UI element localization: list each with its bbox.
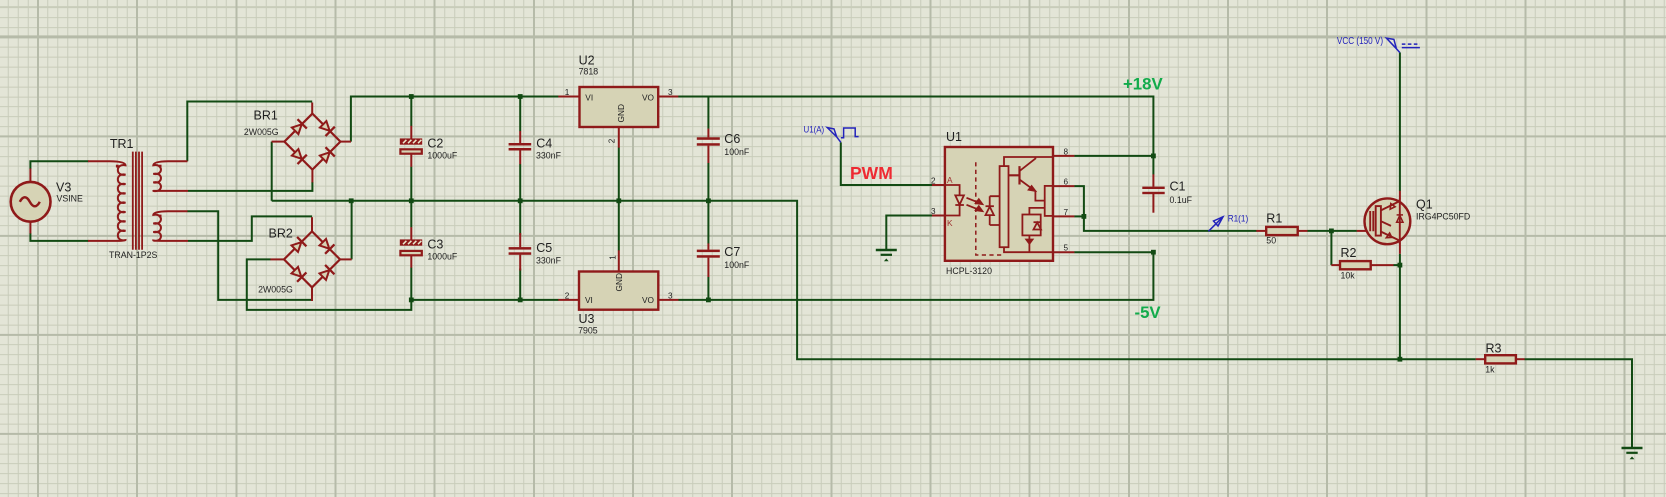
wire U1 pin5 east xyxy=(1074,251,1153,253)
U1 internal bottom supply trace xyxy=(1004,247,1053,252)
pin BR1 bottom xyxy=(311,169,313,182)
pin BR2 left xyxy=(270,258,284,260)
wire TR1 sec1 bottom to BR1 bottom vertex xyxy=(188,182,312,191)
pin C3 bottom xyxy=(410,256,412,268)
svg-text:100nF: 100nF xyxy=(724,260,750,270)
transistor Q1 collector-emitter line and internal diode xyxy=(1399,199,1401,244)
pin C3 top xyxy=(410,227,412,240)
wire VCC down to Q1 collector xyxy=(1399,53,1401,192)
wire C2 top xyxy=(410,97,412,127)
svg-text:C5: C5 xyxy=(536,241,552,255)
svg-text:7905: 7905 xyxy=(578,326,598,336)
U1 internal right load block xyxy=(1045,186,1053,216)
svg-text:1000uF: 1000uF xyxy=(427,252,457,262)
pin C5 top xyxy=(519,233,521,247)
resistor R1 body xyxy=(1266,227,1298,235)
wire +18V top rail from BR1 right to U2 VI xyxy=(351,97,559,142)
pin C7 bottom xyxy=(707,258,709,277)
svg-text:50: 50 xyxy=(1266,236,1276,246)
wire C2 bottom xyxy=(410,167,412,201)
transistor Q1 collector branch xyxy=(1381,199,1400,211)
svg-text:C1: C1 xyxy=(1170,180,1186,194)
svg-text:K: K xyxy=(947,218,953,228)
bridge BR1 diode top-left xyxy=(290,119,306,135)
wire U1 pin3 to ground xyxy=(886,216,932,250)
svg-text:330nF: 330nF xyxy=(536,150,562,160)
wire TR1 sec1 top to BR1 top vertex xyxy=(187,102,312,162)
transistor Q1 gate bar xyxy=(1370,211,1373,231)
pin U1.6 xyxy=(1053,185,1075,187)
svg-text:2: 2 xyxy=(931,176,936,185)
regulator U2 body xyxy=(580,87,659,127)
pin U3.3 VO xyxy=(658,299,678,301)
svg-text:330nF: 330nF xyxy=(536,255,562,265)
wire TR1 sec2 bottom lead to BR2 top vertex xyxy=(188,216,312,241)
svg-text:R1: R1 xyxy=(1266,212,1282,226)
pin C1 top xyxy=(1152,174,1154,186)
wire C3 bottom xyxy=(410,268,412,300)
bridge BR2 diode top-right xyxy=(318,237,334,253)
pin BR2 bottom xyxy=(311,287,313,301)
svg-text:3: 3 xyxy=(931,207,936,216)
svg-text:BR2: BR2 xyxy=(269,227,293,241)
svg-text:HCPL-3120: HCPL-3120 xyxy=(946,266,992,276)
pin U2.3 VO xyxy=(658,96,678,98)
pin C5 bottom xyxy=(519,255,521,271)
capacitor C2 positive hatched plate xyxy=(400,138,422,144)
resistor R2 body xyxy=(1340,261,1371,269)
wire R3 right to ground xyxy=(1525,359,1633,448)
bridge BR2 diode bottom-left xyxy=(290,265,306,281)
wire U1 pin8 to +18 vertical xyxy=(1074,155,1153,157)
U1 internal output transistor xyxy=(1009,157,1045,201)
pin C6 top xyxy=(707,129,709,138)
svg-text:U3: U3 xyxy=(579,312,595,326)
source V3 body xyxy=(11,182,51,222)
pin R1 right xyxy=(1298,230,1308,232)
source V3 sine glyph xyxy=(20,197,40,206)
capacitor C1 plates xyxy=(1142,187,1164,189)
svg-text:VO: VO xyxy=(642,295,655,305)
wire gate drive node to R1 xyxy=(1084,216,1257,231)
generator probe U1(A) xyxy=(827,128,858,143)
regulator U3 body xyxy=(579,272,658,310)
svg-text:U1(A): U1(A) xyxy=(804,124,825,135)
pin U3.1 GND xyxy=(618,250,620,271)
transformer TR1 secondary 2 winding xyxy=(153,211,188,241)
wire C4 top xyxy=(519,97,521,132)
pin Q1 emitter xyxy=(1399,243,1401,253)
U1 internal lower clamp block xyxy=(1022,208,1044,252)
pin C1 bottom xyxy=(1152,194,1154,213)
svg-text:0.1uF: 0.1uF xyxy=(1170,195,1193,205)
svg-text:VSINE: VSINE xyxy=(57,194,84,204)
wire U1 pin6 down to pin7 node xyxy=(1074,186,1084,216)
bridge BR1 diode top-right xyxy=(318,120,334,136)
pin R2 left xyxy=(1331,264,1340,266)
pin U2.2 GND xyxy=(618,127,620,148)
wire C5 bottom xyxy=(519,269,521,300)
svg-text:C4: C4 xyxy=(536,136,552,150)
capacitor C5 plates xyxy=(509,247,532,250)
bridge BR1 diode bottom-left xyxy=(290,148,306,164)
wire BR1 left vertex down to mid rail xyxy=(271,142,273,201)
pin C4 bottom xyxy=(519,150,521,164)
svg-text:U1: U1 xyxy=(946,130,962,144)
pin R1 left xyxy=(1256,230,1266,232)
svg-text:VCC (150 V): VCC (150 V) xyxy=(1337,35,1383,47)
svg-text:6: 6 xyxy=(1064,178,1069,187)
pin U1.7 xyxy=(1053,215,1075,217)
svg-text:IRG4PC50FD: IRG4PC50FD xyxy=(1416,212,1470,222)
pin R2 right xyxy=(1371,264,1394,266)
svg-text:R1(1): R1(1) xyxy=(1228,214,1249,224)
svg-text:10k: 10k xyxy=(1341,271,1356,281)
transistor Q1 emitter branch xyxy=(1381,232,1400,244)
wire C5 top xyxy=(519,201,521,235)
svg-text:Q1: Q1 xyxy=(1416,198,1433,212)
pin C6 bottom xyxy=(707,146,709,163)
wire BR2 left vertex to -V rail into U3 VI xyxy=(247,259,559,310)
svg-text:+18V: +18V xyxy=(1123,75,1163,94)
pin BR2 right xyxy=(340,258,352,260)
svg-text:VI: VI xyxy=(585,92,593,102)
transformer TR1 secondary1 phase dot xyxy=(159,165,162,168)
pin U1.2 A xyxy=(932,184,945,186)
svg-text:3: 3 xyxy=(668,88,673,97)
wire PWM generator to U1 pin2 xyxy=(841,142,933,185)
svg-text:C2: C2 xyxy=(427,137,443,151)
svg-text:2: 2 xyxy=(607,138,616,143)
bridge BR1 diamond xyxy=(284,114,340,170)
transformer TR1 secondary 1 winding xyxy=(153,161,188,191)
svg-text:GND: GND xyxy=(614,273,624,291)
transformer TR1 secondary2 phase dot xyxy=(159,215,162,218)
wire U2 GND to mid rail xyxy=(618,148,620,201)
pin Q1 collector xyxy=(1399,191,1401,199)
pin BR1 left xyxy=(272,141,285,143)
svg-text:8: 8 xyxy=(1064,147,1069,156)
U1 internal light arrows xyxy=(967,198,983,211)
svg-text:1000uF: 1000uF xyxy=(427,151,457,161)
svg-text:-5V: -5V xyxy=(1135,303,1162,322)
svg-text:2: 2 xyxy=(565,291,570,300)
svg-text:TRAN-1P2S: TRAN-1P2S xyxy=(109,250,158,260)
svg-text:7818: 7818 xyxy=(579,67,599,77)
pin BR1 top xyxy=(311,103,313,115)
pin Q1 gate xyxy=(1357,230,1371,232)
pin U1.8 xyxy=(1053,155,1075,157)
pin R3 right xyxy=(1516,358,1525,360)
wire U3 GND up to mid rail xyxy=(618,201,620,251)
wire common mid rail across to emitter rail and R3 xyxy=(272,201,1476,359)
wire C4 bottom xyxy=(519,164,521,201)
U1 internal photodiode xyxy=(986,196,1000,225)
svg-text:1: 1 xyxy=(565,88,570,97)
pin U2.1 VI xyxy=(558,96,579,98)
resistor R3 body xyxy=(1485,355,1516,363)
wire U1 pin7 to node xyxy=(1074,215,1084,217)
pin C2 bottom xyxy=(410,154,412,166)
voltage probe R1(1) xyxy=(1208,217,1223,232)
ground symbol bottom right xyxy=(1622,448,1643,459)
capacitor C6 plates xyxy=(697,137,720,140)
svg-text:1k: 1k xyxy=(1485,365,1495,375)
svg-text:VI: VI xyxy=(585,295,593,305)
U1 internal amplifier column xyxy=(1000,166,1009,247)
pin R3 left xyxy=(1476,358,1486,360)
svg-text:VO: VO xyxy=(642,92,655,102)
bridge BR1 diode bottom-right xyxy=(318,147,334,163)
optocoupler U1 body xyxy=(945,147,1053,261)
svg-text:TR1: TR1 xyxy=(110,137,134,151)
pin V3 top xyxy=(29,169,31,184)
svg-text:U2: U2 xyxy=(579,54,595,68)
wire Q1 emitter down to emitter rail xyxy=(1399,254,1401,360)
capacitor C3 positive hatched plate xyxy=(400,239,422,245)
svg-text:A: A xyxy=(947,175,953,185)
bridge BR2 diode bottom-right xyxy=(318,265,334,281)
svg-text:2W005G: 2W005G xyxy=(258,285,293,295)
svg-text:7: 7 xyxy=(1064,208,1069,217)
pin U1.3 K xyxy=(932,215,945,217)
transistor Q1 channel plate xyxy=(1376,206,1381,236)
wire U3 VO east to C1 bottom vertical up to U1 pin5 xyxy=(678,252,1153,300)
pin BR2 top xyxy=(311,217,313,232)
wire V3 top to TR1 primary xyxy=(30,161,88,169)
svg-text:2W005G: 2W005G xyxy=(244,127,279,137)
U1 internal isolation dashed line xyxy=(976,162,1003,255)
bridge BR2 diamond xyxy=(284,231,340,287)
pin C4 top xyxy=(519,131,521,143)
capacitor C3 negative plate xyxy=(400,251,421,255)
svg-text:V3: V3 xyxy=(56,181,71,195)
svg-text:3: 3 xyxy=(668,291,673,300)
transistor Q1 middle branch xyxy=(1381,221,1391,226)
pin U1.5 xyxy=(1053,251,1075,253)
transistor Q1 body xyxy=(1365,198,1411,244)
pin U3.2 VI xyxy=(558,299,579,301)
wire R2 right to emitter line xyxy=(1393,264,1400,266)
wire C6 top xyxy=(707,97,709,129)
capacitor C4 plates xyxy=(509,143,532,146)
wire C3 top xyxy=(410,201,412,228)
U1 internal LED branch xyxy=(945,185,964,216)
svg-text:R2: R2 xyxy=(1341,246,1357,260)
pin V3 bottom xyxy=(29,221,31,234)
wire V3 bottom to TR1 primary xyxy=(30,233,88,241)
capacitor C7 plates xyxy=(697,250,720,253)
svg-text:GND: GND xyxy=(616,104,626,122)
svg-text:C6: C6 xyxy=(724,132,740,146)
transformer TR1 primary phase dot xyxy=(116,165,119,168)
voltage probe VCC xyxy=(1386,38,1420,53)
wire C6 bottom xyxy=(707,163,709,201)
svg-text:PWM: PWM xyxy=(850,163,893,183)
svg-text:R3: R3 xyxy=(1486,341,1502,355)
svg-text:1: 1 xyxy=(609,255,618,260)
pin C2 top xyxy=(410,126,412,139)
svg-text:100nF: 100nF xyxy=(724,147,750,157)
wire R1 to gate junction xyxy=(1307,230,1357,232)
wire C7 bottom xyxy=(707,277,709,300)
transformer TR1 primary winding xyxy=(88,161,126,241)
wire +18V rail U2 VO east then down to C1 top xyxy=(678,97,1153,175)
transformer TR1 core xyxy=(133,152,142,250)
wire C7 top xyxy=(707,201,709,244)
wire TR1 sec2 top lead to BR2 bottom vertex xyxy=(187,211,311,300)
pin C7 top xyxy=(707,243,709,249)
U1 internal top supply trace xyxy=(1004,157,1053,166)
svg-text:C3: C3 xyxy=(427,238,443,252)
pin BR1 right xyxy=(340,141,351,143)
capacitor C2 negative plate xyxy=(400,149,421,153)
svg-text:BR1: BR1 xyxy=(254,109,278,123)
bridge BR2 diode top-left xyxy=(290,237,306,253)
svg-text:C7: C7 xyxy=(724,245,740,259)
wire BR2 right vertex up to mid rail xyxy=(351,201,353,260)
wire gate junction down to R2 xyxy=(1330,231,1332,265)
ground symbol at U1 K pin xyxy=(876,250,897,261)
svg-text:5: 5 xyxy=(1064,244,1069,253)
